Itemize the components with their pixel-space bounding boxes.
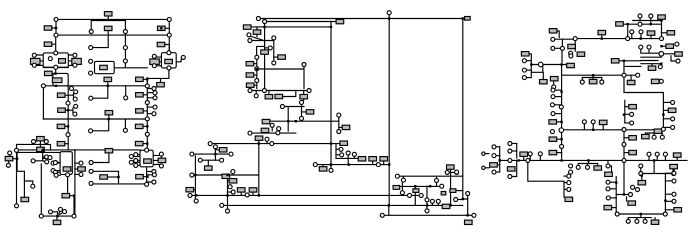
wire [526, 69, 531, 71]
pin [567, 187, 571, 191]
wire [17, 141, 50, 150]
resistor [568, 44, 576, 48]
junction [640, 213, 642, 215]
resistor [144, 159, 152, 163]
wire [664, 175, 666, 213]
wire [107, 16, 109, 19]
resistor [105, 149, 113, 153]
resistor [490, 163, 498, 167]
pin [272, 36, 276, 40]
pin [387, 11, 391, 15]
pin [255, 79, 259, 83]
pin [445, 170, 449, 174]
pin [560, 46, 564, 50]
pin [89, 96, 93, 100]
wire vert [330, 22, 332, 169]
wire [557, 121, 562, 123]
wire busN2 [252, 90, 307, 92]
junction [195, 194, 197, 196]
wire [93, 171, 118, 184]
pin [302, 63, 306, 67]
junction [214, 153, 216, 155]
wire [449, 169, 454, 205]
wire vert x462.8 [463, 19, 468, 200]
wire [256, 27, 258, 37]
pin [54, 33, 58, 37]
wire line2 [267, 21, 337, 23]
junction [660, 63, 662, 65]
wire [528, 162, 564, 197]
wire [610, 188, 616, 190]
wire [107, 176, 118, 178]
wire [143, 143, 147, 145]
wire [564, 188, 567, 190]
pin [145, 132, 149, 136]
wire [165, 21, 169, 50]
junction [499, 159, 501, 161]
wire [601, 35, 603, 39]
wire [496, 147, 500, 172]
wire [529, 54, 531, 77]
junction [660, 19, 662, 21]
pin [188, 193, 192, 197]
wire [42, 88, 44, 119]
wire [624, 90, 663, 127]
pin [676, 59, 680, 63]
pin [6, 163, 10, 167]
resistor [265, 95, 273, 99]
pin [340, 153, 344, 157]
wire [641, 57, 662, 64]
pin [560, 144, 564, 148]
pin [455, 170, 459, 174]
wire [114, 63, 147, 68]
wire busN5 [212, 143, 341, 145]
wire [74, 150, 76, 152]
wire vert [256, 59, 258, 88]
pin [208, 142, 212, 146]
junction [623, 193, 625, 195]
resistor [229, 179, 237, 183]
pin [226, 209, 230, 213]
junction [592, 129, 594, 131]
pin [48, 57, 52, 61]
resistor [393, 186, 400, 190]
wire [147, 70, 169, 84]
junction [662, 114, 664, 116]
pin [551, 46, 555, 50]
resistor [100, 175, 108, 179]
pin [635, 219, 639, 223]
pin [45, 155, 49, 159]
pin [606, 180, 610, 184]
pin [300, 100, 304, 104]
wire [138, 164, 140, 166]
resistor [255, 136, 263, 140]
wire [436, 176, 438, 186]
junction [650, 23, 652, 25]
wire [268, 91, 270, 95]
wire [400, 185, 440, 187]
resistor [465, 220, 473, 224]
wire vert [264, 24, 266, 44]
junction [160, 27, 162, 29]
wire [485, 153, 489, 155]
pin [649, 14, 653, 18]
pin [247, 33, 251, 37]
wire [339, 126, 342, 128]
resistor [358, 157, 366, 161]
resistor [447, 165, 455, 169]
wire [65, 125, 68, 127]
junction [348, 163, 350, 165]
junction [462, 198, 464, 200]
pin [528, 152, 532, 156]
module [140, 150, 153, 167]
pin [72, 214, 76, 218]
wire [254, 74, 257, 76]
pin [245, 193, 249, 197]
junction [295, 120, 297, 122]
junction [429, 185, 431, 187]
pin [672, 199, 676, 203]
pin [639, 30, 643, 34]
pin [276, 131, 280, 135]
pin [559, 128, 564, 133]
wire [55, 163, 60, 176]
resistor [78, 167, 86, 171]
wire [108, 115, 110, 119]
junction [330, 163, 332, 165]
pin [263, 20, 267, 24]
pin [49, 210, 53, 214]
resistor [668, 108, 676, 112]
wire [641, 176, 643, 181]
resistor [105, 111, 113, 115]
wire [65, 94, 68, 96]
wire [271, 127, 273, 131]
pin [647, 152, 651, 156]
resistor [5, 156, 13, 160]
pin [129, 160, 133, 164]
resistor [57, 93, 65, 97]
resistor [319, 167, 327, 171]
pin [522, 76, 526, 80]
wire line1 [260, 18, 462, 20]
pin [395, 174, 399, 178]
wire [619, 61, 624, 73]
resistor [104, 26, 112, 30]
wire busM5 [399, 175, 462, 177]
wire [383, 161, 385, 165]
pin [639, 45, 643, 49]
wire [625, 106, 629, 108]
pin [586, 165, 590, 169]
pin [440, 184, 444, 188]
junction [672, 169, 674, 171]
wire [143, 78, 147, 80]
pin [79, 172, 83, 176]
wire [254, 84, 257, 86]
pin [153, 96, 157, 100]
pin [181, 55, 185, 59]
wire [125, 86, 127, 96]
wire busR3 [563, 129, 661, 131]
wire [640, 168, 642, 174]
pin [313, 163, 317, 167]
resistor [616, 22, 624, 26]
pin [70, 86, 74, 90]
junction [560, 91, 562, 93]
wire [650, 35, 652, 38]
resistor [550, 77, 558, 81]
wire [160, 78, 162, 82]
pin [630, 121, 634, 125]
wire [523, 156, 525, 160]
wire [402, 176, 404, 178]
wire [147, 172, 153, 183]
wire [557, 132, 562, 159]
pin [652, 135, 656, 139]
resistor [521, 52, 529, 56]
pin [54, 51, 58, 55]
pin [655, 152, 659, 156]
wire [9, 150, 25, 197]
pin [400, 191, 404, 195]
junction [263, 26, 265, 28]
pin [89, 46, 93, 50]
wire [526, 60, 531, 62]
wire [608, 160, 612, 172]
resistor [52, 78, 62, 83]
junction [388, 17, 390, 19]
junction [54, 72, 56, 74]
pin [89, 181, 93, 185]
pin [53, 170, 57, 174]
pin [167, 66, 171, 70]
junction [592, 74, 594, 76]
pin [522, 68, 526, 72]
resistor [158, 158, 166, 162]
pin [436, 199, 440, 203]
resistor [369, 157, 377, 161]
resistor [253, 30, 261, 34]
wire busM1 [194, 153, 229, 155]
junction [530, 63, 532, 65]
junction [653, 159, 655, 161]
wire [75, 168, 78, 170]
resistor [667, 31, 675, 35]
pin [551, 112, 555, 116]
pin [626, 219, 630, 223]
wire [414, 186, 416, 205]
wire [664, 156, 666, 160]
resistor [441, 192, 446, 195]
wire [353, 156, 355, 158]
pin [280, 105, 284, 109]
wire busA [56, 18, 169, 20]
pin [569, 164, 573, 168]
wire [665, 209, 674, 211]
pin [550, 103, 554, 107]
wire [264, 54, 266, 88]
wire [93, 86, 108, 98]
resistor [340, 141, 348, 145]
wire [146, 78, 148, 149]
wire vert [194, 156, 196, 199]
wire busF [43, 215, 72, 217]
pin [435, 178, 439, 182]
pin [576, 165, 580, 169]
pin [73, 97, 77, 101]
pin [152, 180, 156, 184]
wire [284, 106, 304, 108]
module [43, 53, 68, 67]
wire [124, 119, 126, 128]
wire [228, 191, 232, 193]
pin [659, 79, 663, 83]
resistor [249, 188, 257, 192]
pin [89, 129, 93, 133]
resistor [136, 77, 144, 81]
wire [91, 19, 125, 29]
pin [508, 175, 512, 179]
wire vert [388, 15, 390, 206]
pin [582, 120, 586, 124]
pin [123, 59, 127, 63]
pin [600, 80, 604, 84]
pin [508, 158, 512, 162]
junction [146, 78, 148, 80]
wire [194, 189, 196, 191]
pin [159, 152, 163, 156]
resistor [565, 197, 573, 201]
resistor [567, 63, 575, 67]
resistor [135, 141, 143, 145]
wire busB [56, 34, 169, 36]
pin [329, 168, 333, 172]
wire [55, 69, 57, 73]
wire [582, 75, 602, 80]
wire [553, 81, 555, 85]
wire [663, 54, 676, 61]
wire [665, 193, 672, 195]
pin [89, 161, 93, 165]
wire [232, 174, 234, 175]
junction [146, 176, 148, 178]
pin [672, 179, 676, 183]
wire [661, 19, 663, 36]
wire [633, 18, 662, 24]
wire busE2 [17, 151, 60, 153]
pin [671, 117, 675, 121]
wire busN3 [270, 120, 339, 122]
module [161, 53, 176, 68]
wire [52, 72, 56, 74]
wire [529, 156, 531, 161]
resistor [158, 26, 166, 30]
wire [255, 91, 257, 94]
wire [628, 214, 651, 219]
pin [255, 55, 259, 59]
pin [51, 161, 55, 165]
resistor [666, 44, 674, 48]
pin [339, 147, 343, 151]
wire [496, 146, 500, 148]
pin [672, 192, 676, 196]
wire [147, 89, 153, 98]
resistor [136, 109, 144, 113]
wire [665, 200, 672, 202]
wire [147, 107, 153, 114]
pin [268, 46, 272, 50]
resistor [243, 25, 251, 29]
pin [190, 152, 194, 156]
wire [143, 94, 147, 96]
wire [36, 55, 43, 65]
wire [254, 63, 257, 65]
wire busM4 [224, 204, 463, 206]
resistor [63, 167, 71, 171]
resistor [507, 167, 515, 171]
wire [93, 119, 109, 131]
wire [133, 161, 140, 163]
junction [517, 159, 519, 161]
wire [641, 49, 662, 53]
wire [555, 48, 562, 62]
resistor [219, 148, 227, 152]
wire [124, 50, 126, 59]
junction [560, 159, 562, 161]
pin [41, 84, 45, 88]
junction [462, 17, 464, 19]
wire [645, 130, 662, 136]
pin [419, 193, 423, 197]
wire [467, 196, 469, 216]
wire [274, 56, 278, 58]
wire [663, 101, 670, 103]
wire [663, 126, 670, 128]
resistor [37, 137, 45, 141]
pin [152, 54, 156, 58]
pin [152, 64, 156, 68]
wire [265, 47, 269, 49]
pin [54, 173, 58, 177]
wire [401, 182, 403, 191]
pin [123, 46, 127, 50]
resistor [262, 119, 270, 123]
wire [426, 186, 428, 209]
wire [35, 152, 43, 161]
wire [65, 109, 68, 111]
pin [228, 185, 232, 189]
resistor [647, 31, 655, 35]
junction [426, 204, 428, 206]
wire [555, 89, 562, 91]
resistor [540, 80, 548, 84]
wire [251, 36, 274, 61]
wire [24, 181, 32, 184]
pin [569, 54, 573, 58]
resistor [594, 166, 602, 170]
wire [157, 57, 162, 66]
wire [43, 67, 68, 69]
wire busD [43, 118, 145, 120]
junction [388, 163, 390, 165]
wire [542, 72, 544, 79]
pin [337, 130, 341, 134]
wire [264, 132, 266, 135]
